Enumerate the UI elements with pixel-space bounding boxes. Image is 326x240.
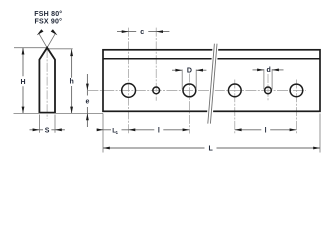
d extension line left [263, 69, 265, 89]
svg-text:FSH 80°: FSH 80° [34, 10, 62, 18]
S dimension line left segment [30, 129, 44, 131]
angle leader arrow right [51, 29, 58, 35]
hole 5 [265, 87, 272, 94]
S arrow right [55, 128, 62, 131]
tip extension line right [47, 48, 73, 50]
svg-text:h: h [69, 79, 73, 86]
D extension line right [195, 70, 197, 90]
hole 3 centerline [188, 74, 190, 134]
angle extension line right [47, 34, 55, 48]
L arrow right [313, 147, 320, 150]
blade centerline [46, 49, 48, 119]
H arrow bottom [22, 107, 25, 114]
svg-text:1: 1 [116, 130, 119, 135]
D arrow left [175, 69, 182, 72]
left edge extension line [102, 114, 104, 153]
L1 arrow left [97, 128, 104, 131]
svg-text:l: l [265, 128, 267, 135]
svg-text:FSX 90°: FSX 90° [34, 18, 62, 26]
H dimension line [22, 48, 24, 77]
hole 1 [122, 84, 136, 98]
svg-text:d: d [267, 67, 271, 74]
hole 2 [153, 87, 160, 94]
d dimension line left segment [253, 69, 264, 71]
break line left [208, 44, 215, 124]
break mask [206, 44, 219, 124]
H arrow top [22, 48, 25, 55]
hole 5 centerline [267, 74, 269, 101]
h arrow top [70, 49, 73, 56]
hole 4 [228, 84, 241, 97]
D extension line left [181, 70, 183, 90]
d arrow right [272, 69, 279, 72]
svg-text:c: c [140, 29, 144, 36]
e dimension line top [86, 74, 88, 96]
hole 6 [290, 84, 303, 97]
L arrow left [103, 147, 110, 150]
d dimension line right segment [272, 69, 283, 71]
hole 6 centerline [295, 80, 297, 134]
l right dim right arrow [290, 128, 297, 131]
c dimension line right segment [148, 31, 169, 33]
l left arrow (shared with L1) [129, 128, 136, 131]
right edge extension line [319, 114, 321, 153]
c arrow right [156, 30, 163, 33]
S extension line left [38, 115, 40, 133]
angle extension line left [39, 34, 47, 48]
d extension line right [271, 69, 273, 89]
l dimension left [122, 129, 155, 131]
svg-text:l: l [158, 128, 160, 135]
bar horizontal centerline [87, 89, 306, 91]
hole 1 centerline [128, 28, 130, 134]
d arrow left [257, 69, 264, 72]
svg-text:L: L [209, 146, 214, 153]
c dimension line left segment [117, 31, 136, 33]
svg-text:D: D [187, 68, 192, 75]
svg-text:S: S [45, 127, 50, 134]
hole 2 centerline [155, 28, 157, 101]
D arrow right [196, 69, 203, 72]
h arrow bottom [70, 107, 73, 114]
break line right [210, 44, 217, 124]
D dimension line left segment [172, 69, 182, 71]
hole 3 [183, 84, 196, 97]
l right arrow [183, 128, 190, 131]
bar outline [103, 50, 320, 112]
c arrow left [122, 30, 129, 33]
tip extension line left [14, 47, 47, 49]
l right dim left arrow [235, 128, 242, 131]
e arrow bottom [86, 113, 89, 120]
hole 4 centerline [234, 80, 236, 134]
blade outline [39, 48, 55, 113]
svg-text:e: e [85, 99, 89, 106]
angle leader arrow left [37, 29, 44, 35]
bottom extension line [14, 112, 104, 114]
L dimension line [103, 147, 205, 149]
bar bevel line [103, 58, 320, 60]
S dimension line right segment [51, 129, 65, 131]
S extension line right [54, 115, 56, 133]
e dimension line bottom [86, 107, 88, 127]
h dimension line [71, 49, 73, 77]
e arrow top [86, 84, 89, 91]
l dimension right [235, 129, 261, 131]
L1 dimension line left segment [97, 129, 112, 131]
D dimension line right segment [196, 69, 206, 71]
svg-text:H: H [20, 79, 25, 86]
S arrow left [33, 128, 40, 131]
